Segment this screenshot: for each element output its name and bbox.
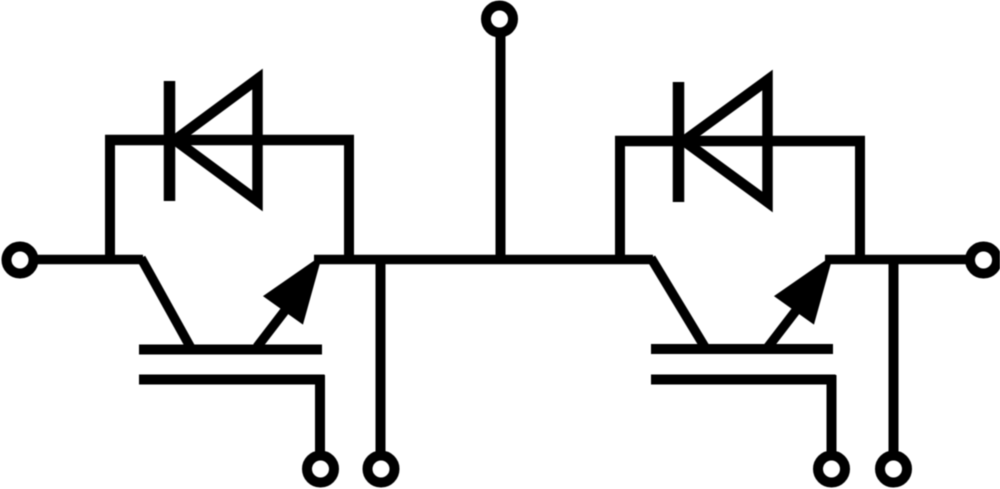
terminal pad 1 (left, collector of Q1): [7, 247, 34, 274]
terminal pad 5 (Q2 gate): [818, 456, 845, 483]
wire: mid bus (Q1 emitter / phase node to Q2 collector): [314, 255, 653, 265]
wire: Q1 auxiliary emitter lead down to pad: [376, 256, 386, 452]
wire: left bus from terminal 1 to Q1 collector: [31, 255, 143, 265]
diode D1 (anti-parallel freewheel diode over Q1): [105, 79, 354, 201]
terminal pad 7 (right, emitter of Q2): [970, 247, 997, 274]
wire: phase terminal vertical drop to mid bus: [496, 31, 506, 264]
wire: Q2 auxiliary emitter lead down to pad: [889, 256, 899, 452]
wire: D1 anode-side vertical (right leg of diode bridge): [344, 137, 354, 265]
transistor Q1 (IGBT, left): [139, 258, 325, 380]
terminal pad 4 (top, phase output node): [486, 6, 513, 33]
wire: D2 cathode-side vertical (left leg of diode bridge): [615, 137, 625, 265]
wire: D1 cathode-side vertical (left leg of diode bridge): [105, 136, 115, 265]
wire: right bus (Q2 emitter to terminal 7): [825, 255, 966, 265]
terminal pad 3 (Q1 auxiliary emitter): [368, 456, 395, 483]
wire: Q1 gate lead down to pad: [315, 375, 325, 452]
diode D2 (anti-parallel freewheel diode over Q2): [615, 80, 865, 202]
wire: Q2 gate lead down to pad: [827, 375, 837, 452]
terminal pad 6 (Q2 auxiliary emitter): [880, 456, 907, 483]
terminal pad 2 (Q1 gate): [307, 456, 334, 483]
transistor Q2 (IGBT, right): [651, 258, 836, 380]
wire: D2 anode-side vertical (right leg of diode bridge): [855, 138, 865, 265]
